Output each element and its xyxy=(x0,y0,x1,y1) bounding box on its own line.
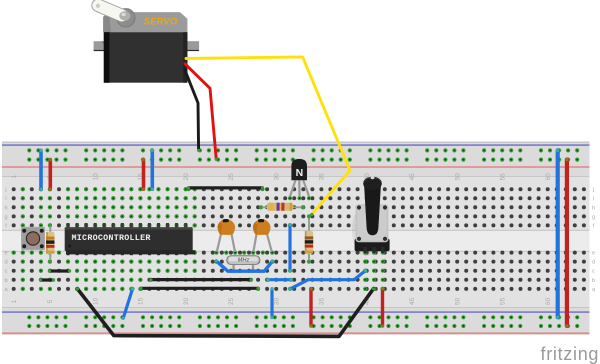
svg-text:35: 35 xyxy=(319,173,326,181)
wire red A34 to bottom rail xyxy=(309,289,312,326)
wire red jumper rail to J5 xyxy=(48,160,52,190)
wire blue diagonal A14 to bottom rail xyxy=(123,289,132,318)
capacitor C2 (ceramic) xyxy=(253,233,256,252)
svg-text:1: 1 xyxy=(11,299,18,303)
wire black row B cols 4-5 xyxy=(41,278,54,281)
svg-text:e: e xyxy=(592,251,595,257)
bottom red power rail line xyxy=(2,332,590,334)
wire blue vertical A30 to bottom rail xyxy=(270,289,273,318)
svg-text:h: h xyxy=(592,205,595,211)
wire red A42 to bottom rail xyxy=(381,289,384,326)
wire red vertical right rail-to-rail xyxy=(565,160,569,326)
breadboard main grid holes xyxy=(12,187,586,291)
wire blue vertical F31 to C31 xyxy=(288,225,291,271)
svg-text:45: 45 xyxy=(409,173,416,181)
wire black row J cols 20-28 xyxy=(189,186,263,189)
svg-text:i: i xyxy=(5,196,6,202)
svg-text:10: 10 xyxy=(92,173,99,181)
svg-text:60: 60 xyxy=(545,173,552,181)
svg-text:SERVO: SERVO xyxy=(144,17,178,27)
breadboard body xyxy=(2,142,590,335)
svg-text:1: 1 xyxy=(11,175,18,179)
svg-text:25: 25 xyxy=(228,173,235,181)
servo black ground wire xyxy=(185,70,199,150)
svg-text:f: f xyxy=(593,223,595,229)
svg-text:50: 50 xyxy=(454,173,461,181)
svg-text:50: 50 xyxy=(454,297,461,305)
breadboard row/column labels xyxy=(4,173,596,305)
svg-text:25: 25 xyxy=(228,297,235,305)
svg-text:MHz: MHz xyxy=(238,258,250,264)
svg-text:d: d xyxy=(4,260,7,266)
svg-text:fritzing: fritzing xyxy=(541,344,600,364)
svg-text:c: c xyxy=(592,269,595,275)
svg-text:30: 30 xyxy=(273,173,280,181)
wire blue vertical right rail-to-rail xyxy=(556,150,560,317)
servo horn xyxy=(117,9,135,27)
svg-text:60: 60 xyxy=(545,297,552,305)
svg-text:d: d xyxy=(592,260,595,266)
svg-text:45: 45 xyxy=(409,297,416,305)
capacitor C1 (ceramic) xyxy=(217,233,222,252)
svg-text:h: h xyxy=(4,205,7,211)
potentiometer RV1 xyxy=(352,204,380,256)
wire black U-shaped jumper A8 to A41 xyxy=(78,289,374,337)
servo red power wire xyxy=(185,64,216,159)
svg-text:5: 5 xyxy=(47,299,54,303)
wire black row B cols 16-27 xyxy=(151,278,251,281)
svg-text:15: 15 xyxy=(138,297,145,305)
svg-text:MICROCONTROLLER: MICROCONTROLLER xyxy=(72,233,152,243)
transistor Q1 xyxy=(290,180,296,196)
svg-text:b: b xyxy=(592,278,595,284)
svg-text:e: e xyxy=(4,251,7,257)
svg-text:j: j xyxy=(592,187,594,193)
svg-text:35: 35 xyxy=(319,297,326,305)
top blue power rail line xyxy=(2,144,590,146)
svg-text:c: c xyxy=(5,269,8,275)
resistor R2 (vertical, middle) xyxy=(308,217,310,262)
servo yellow signal wire xyxy=(186,57,350,214)
wire blue bridge under crystal D23 to D29 xyxy=(216,261,272,271)
svg-text:a: a xyxy=(592,287,596,293)
servo motor body xyxy=(94,41,109,50)
svg-text:g: g xyxy=(592,214,595,220)
bottom blue power rail line xyxy=(2,311,590,313)
wire red jumper rail to J15 xyxy=(142,160,146,190)
resistor R3 (horizontal) xyxy=(261,206,303,208)
power rail holes (connected, green) xyxy=(27,148,579,328)
svg-text:20: 20 xyxy=(183,297,190,305)
svg-text:55: 55 xyxy=(500,173,507,181)
svg-text:10: 10 xyxy=(92,297,99,305)
pushbutton S1 xyxy=(21,227,45,250)
svg-text:55: 55 xyxy=(500,297,507,305)
top red power rail line xyxy=(2,166,590,168)
wire blue row B cols 29-31 xyxy=(268,278,291,281)
svg-text:g: g xyxy=(4,214,7,220)
wire black row C cols 5-7 xyxy=(50,269,70,272)
connected holes (green) xyxy=(12,187,385,291)
resistor R1 (vertical, left) xyxy=(49,225,51,262)
svg-text:N: N xyxy=(296,167,304,179)
svg-text:i: i xyxy=(593,196,594,202)
svg-text:30: 30 xyxy=(273,297,280,305)
wire black row A cols 15-28 xyxy=(141,287,258,290)
svg-text:b: b xyxy=(4,278,7,284)
IC U1 MICROCONTROLLER xyxy=(67,223,70,228)
wire blue jumper rail to J4 xyxy=(39,150,43,189)
svg-text:20: 20 xyxy=(183,173,190,181)
crystal Y1 MHz xyxy=(232,262,234,269)
wire blue bent A31 to C40 xyxy=(290,271,366,290)
svg-text:j: j xyxy=(4,187,6,193)
wire blue jumper rail to J16 xyxy=(151,150,155,189)
